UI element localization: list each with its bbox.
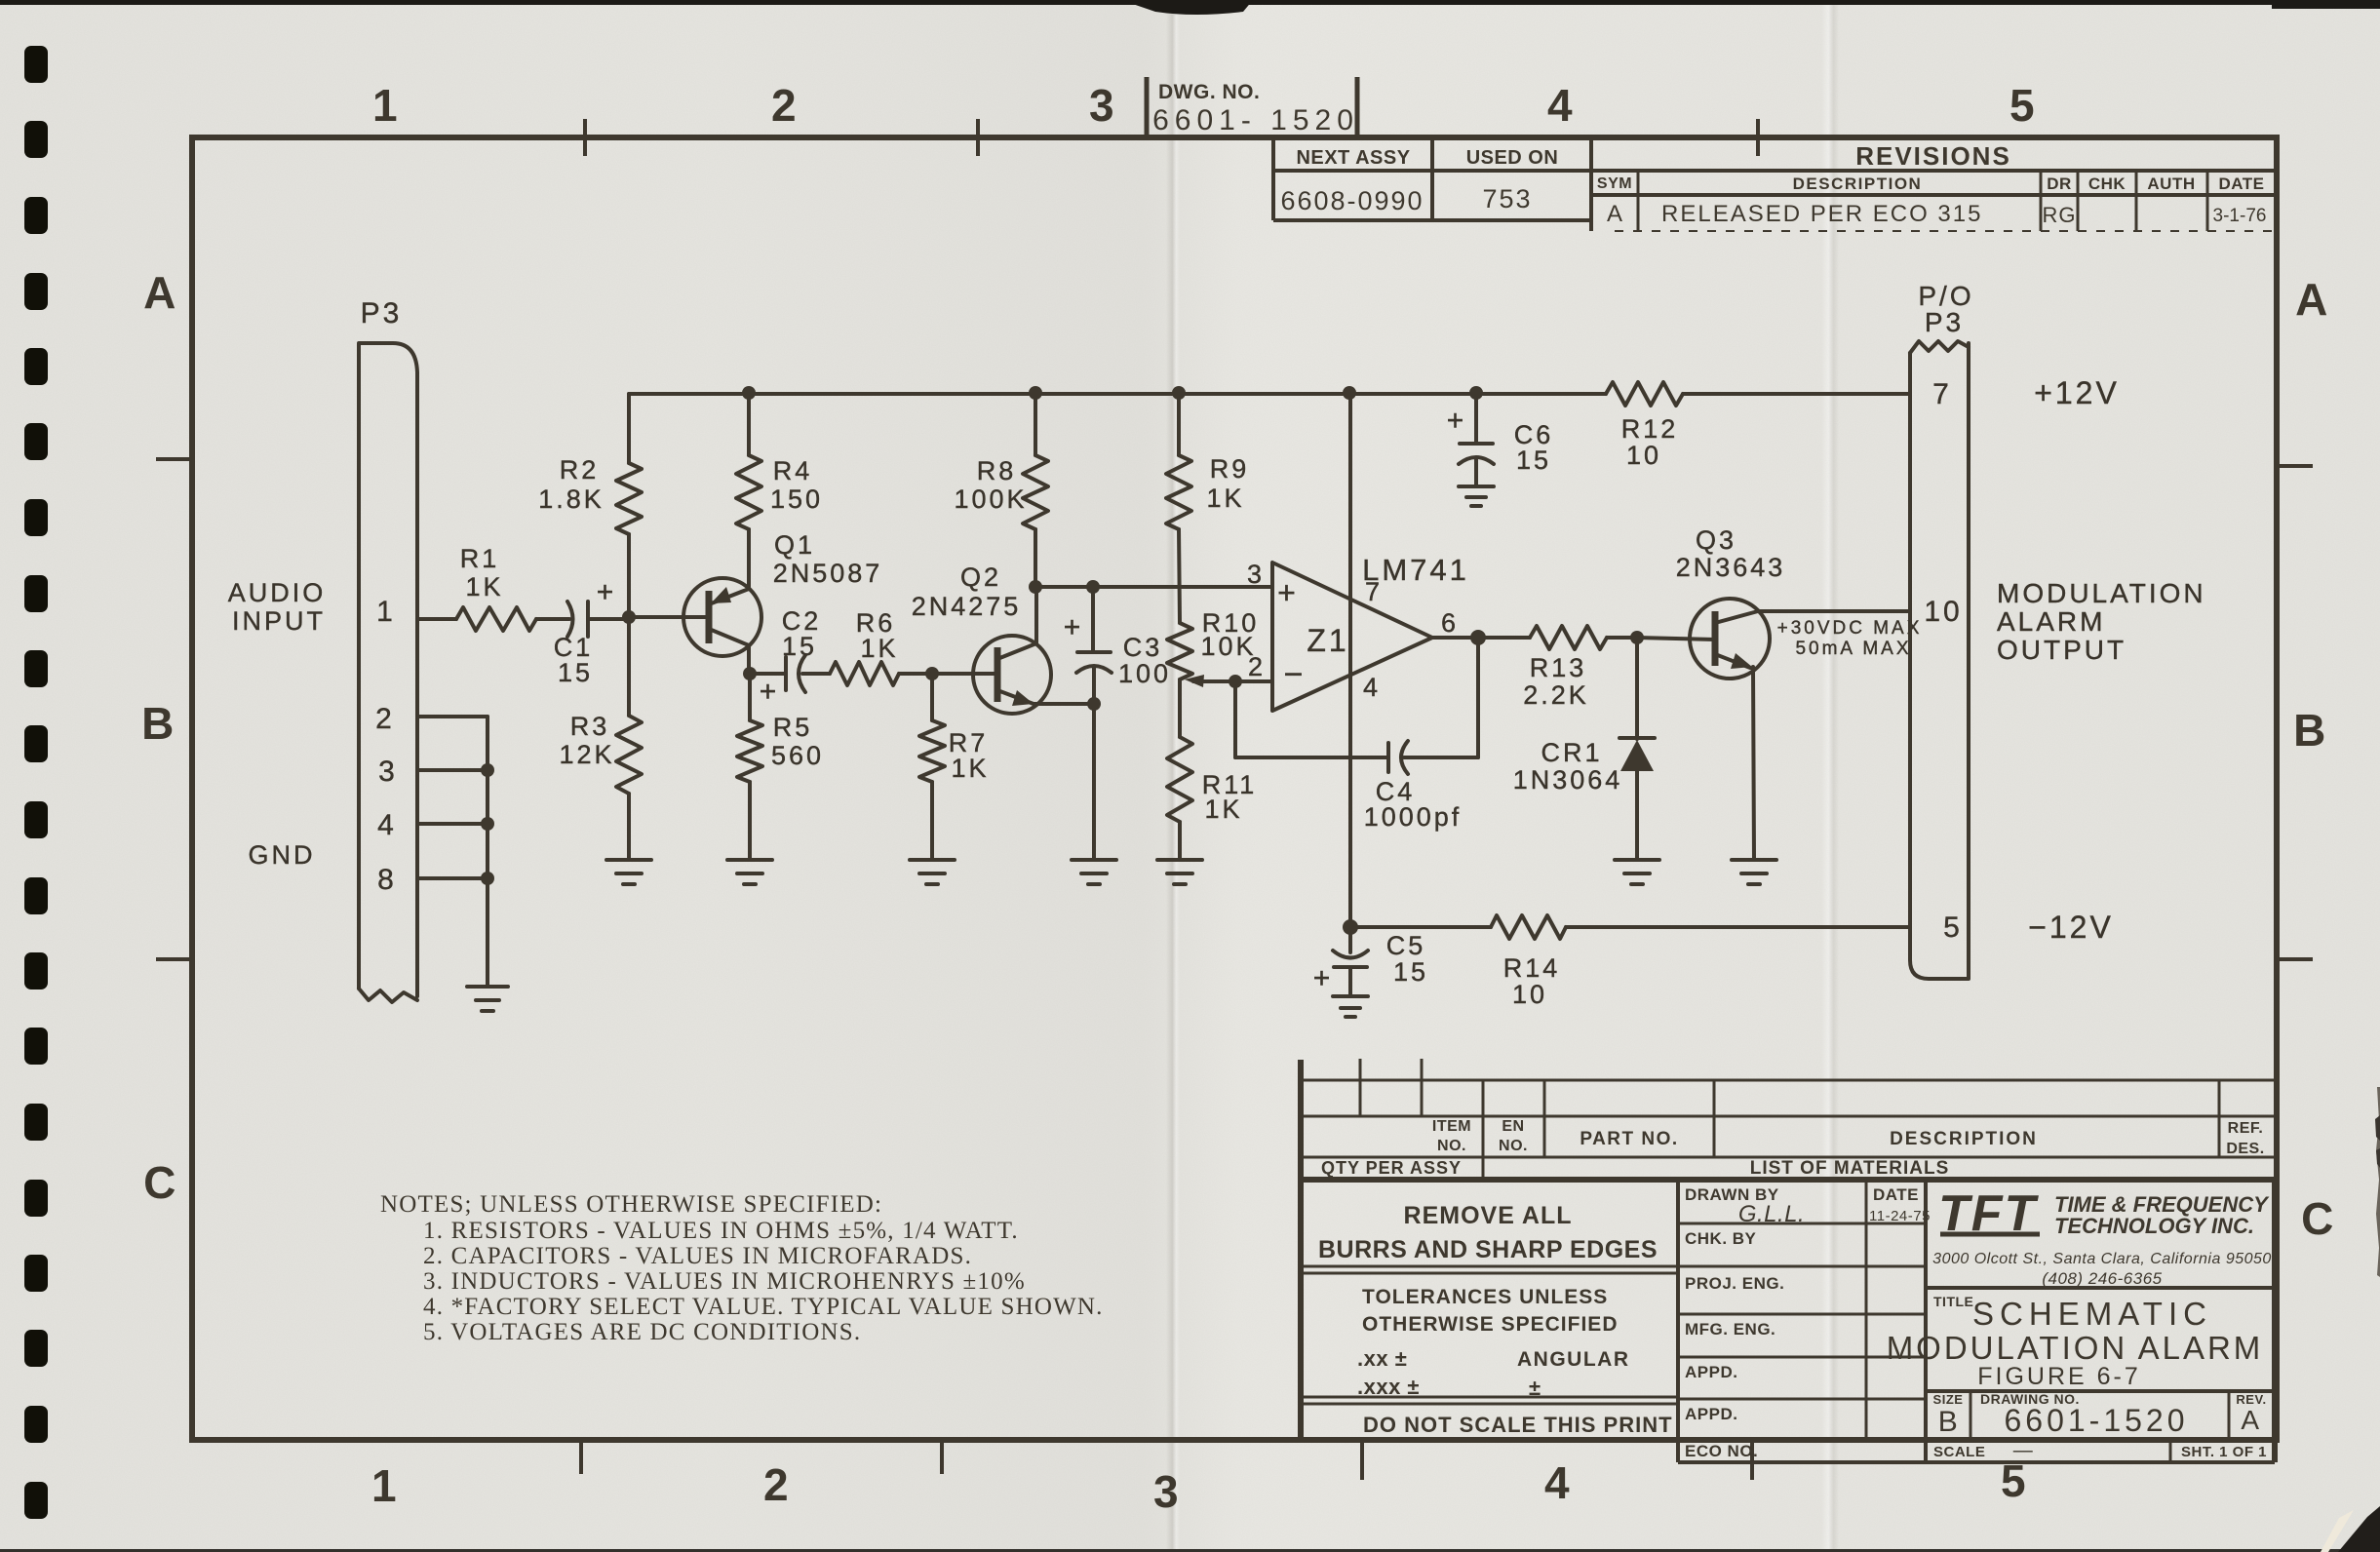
svg-text:5: 5 [1943,912,1963,944]
node R6/R7/Q2 [925,667,939,680]
svg-text:R1: R1 [460,544,500,573]
wire opamp out [1432,636,1530,640]
capacitor C6 [1474,394,1478,444]
resistor R4 [736,455,761,529]
zone ticks right [2277,464,2313,468]
wire Q1 collector to node [747,645,751,674]
svg-text:3: 3 [1247,560,1265,589]
svg-text:15: 15 [558,658,593,687]
wire R9 to R10 [1179,529,1180,623]
svg-text:LIST OF MATERIALS: LIST OF MATERIALS [1750,1158,1950,1179]
svg-text:3: 3 [1153,1466,1179,1517]
svg-text:10: 10 [1626,441,1661,470]
svg-text:15: 15 [782,632,817,661]
torn corner bottom right [2338,1506,2380,1552]
node pin8 junction [481,872,494,885]
wire R10 to R11 [1178,679,1182,737]
node C3/Q2 emitter [1087,697,1101,711]
node rail pin7 [1343,386,1356,400]
svg-text:4: 4 [1363,673,1381,702]
wire R8 to node [1034,529,1037,587]
ground CR1 [1615,860,1659,884]
svg-text:MODULATION: MODULATION [1997,578,2206,608]
svg-text:ALARM: ALARM [1997,606,2105,637]
wire Q3 emitter to ground [1753,667,1754,860]
wire R7 to ground [930,782,934,860]
svg-text:11-24-75: 11-24-75 [1869,1208,1931,1224]
svg-text:CHK. BY: CHK. BY [1685,1229,1757,1248]
svg-text:R12: R12 [1621,414,1679,444]
svg-text:PROJ. ENG.: PROJ. ENG. [1685,1274,1784,1293]
op-amp Z1 LM741 [1272,563,1432,711]
wire R13 to node [1607,636,1637,640]
svg-text:560: 560 [771,741,824,770]
svg-text:8: 8 [377,864,397,896]
svg-text:2N5087: 2N5087 [773,559,883,588]
svg-text:15: 15 [1516,446,1551,475]
svg-text:A: A [2241,1405,2259,1435]
svg-text:RELEASED PER ECO 315: RELEASED PER ECO 315 [1661,201,1982,227]
node R8/Q2 collector [1029,580,1042,594]
left column cells [1301,1265,1678,1268]
node pin4 junction [481,817,494,831]
node Q1/C2/R5 [743,667,757,680]
wire rail to R2 [627,394,631,463]
wire C2 to R6 [802,672,830,676]
svg-text:+: + [1313,962,1334,994]
svg-text:P3: P3 [1925,307,1964,337]
svg-text:2.2K: 2.2K [1523,680,1589,710]
resistor R11 [1167,737,1192,822]
svg-text:4: 4 [377,809,397,841]
svg-text:−: − [1284,656,1307,693]
svg-text:R2: R2 [560,455,600,485]
svg-text:1: 1 [376,596,396,628]
zone ticks top [583,119,587,156]
svg-text:1K: 1K [465,572,503,601]
svg-text:R13: R13 [1530,653,1587,682]
node output [1470,630,1486,645]
svg-text:MFG. ENG.: MFG. ENG. [1685,1320,1775,1339]
svg-text:1: 1 [371,1460,397,1511]
svg-text:6: 6 [1441,608,1459,638]
svg-text:753: 753 [1482,184,1532,213]
svg-text:100: 100 [1118,659,1171,688]
resistor R8 [1023,455,1048,529]
svg-text:6601-1520: 6601-1520 [2004,1403,2188,1438]
wire rail to R4 [747,394,751,455]
svg-text:QTY PER ASSY: QTY PER ASSY [1321,1158,1462,1178]
svg-text:B: B [2293,705,2326,756]
svg-text:R8: R8 [977,456,1017,485]
wire -12V rail [1350,925,1491,929]
svg-text:ITEM: ITEM [1432,1118,1471,1135]
ground Q3 [1732,860,1776,884]
resistor R6 [830,662,899,685]
transistor Q2 [973,636,1051,714]
connector P/O P3 (output) [1910,343,1969,979]
svg-text:OTHERWISE SPECIFIED: OTHERWISE SPECIFIED [1362,1313,1618,1336]
svg-text:+30VDC MAX: +30VDC MAX [1777,618,1923,639]
binder holes [24,46,48,83]
svg-text:B: B [1938,1406,1959,1438]
svg-text:2: 2 [375,703,395,735]
svg-text:+: + [1064,611,1084,643]
wire Q2 collector [1034,587,1038,643]
svg-text:TOLERANCES UNLESS: TOLERANCES UNLESS [1362,1286,1608,1308]
svg-text:EN: EN [1502,1118,1524,1135]
svg-text:R14: R14 [1503,953,1561,983]
list of materials table [1298,1060,1304,1439]
svg-text:FIGURE 6-7: FIGURE 6-7 [1977,1363,2141,1390]
svg-text:REF.: REF. [2228,1120,2264,1137]
scanner black bottom edge [0,1549,2380,1552]
scanner black top edge [0,0,2380,5]
svg-text:3000 Olcott St., Santa Clara,: 3000 Olcott St., Santa Clara, California… [1932,1251,2272,1267]
drawing frame border [192,137,2277,1440]
svg-text:5: 5 [2009,80,2035,131]
resistor R14 [1491,915,1566,939]
svg-text:DATE: DATE [2218,175,2264,193]
wire node to R3 [627,617,631,716]
svg-text:NEXT ASSY: NEXT ASSY [1296,147,1410,169]
node pin2/wiper/feedback [1229,675,1242,688]
size/drawing no row [1926,1389,2275,1393]
resistor R5 [737,720,762,782]
svg-text:ECO NO.: ECO NO. [1685,1442,1758,1460]
resistor R3 [616,716,642,794]
svg-text:SHT. 1 OF 1: SHT. 1 OF 1 [2181,1444,2267,1460]
capacitor C4 [1386,743,1390,772]
wire pin7/pin4 vertical [1348,394,1352,927]
node pin3 junction [481,763,494,777]
wire rail to R9 [1177,394,1181,455]
resistor R12 [1606,382,1683,406]
resistor R13 [1530,626,1607,649]
svg-text:1K: 1K [1206,484,1244,513]
node rail C6 [1469,386,1483,400]
svg-text:A: A [2295,274,2328,325]
svg-text:GND: GND [249,840,316,870]
svg-text:4: 4 [1547,80,1573,131]
wire C3 to ground [1092,668,1096,704]
wire node to Q3 base [1637,638,1715,640]
svg-text:R5: R5 [773,713,813,742]
svg-text:±: ± [1529,1376,1541,1400]
capacitor C1 [567,601,573,637]
wire pin3 [417,768,488,772]
wire C1 to node [588,617,629,621]
NEXT ASSY / USED ON table [1271,140,1275,220]
svg-text:1. RESISTORS - VALUES IN OHMS: 1. RESISTORS - VALUES IN OHMS ±5%, 1/4 W… [423,1218,1019,1244]
wire R5 to ground [748,782,752,860]
svg-text:APPD.: APPD. [1685,1363,1737,1381]
svg-text:+: + [597,576,617,608]
title block grid [1676,1180,1680,1462]
ground C3 [1072,860,1116,884]
wire R6 to node [899,672,932,676]
svg-text:6608-0990: 6608-0990 [1280,186,1424,215]
wire rail to R8 [1034,394,1037,455]
svg-text:SCHEMATIC: SCHEMATIC [1972,1296,2212,1332]
svg-text:5. VOLTAGES ARE DC CONDITIONS: 5. VOLTAGES ARE DC CONDITIONS. [423,1319,861,1345]
wire R4 to Q1 emitter [747,529,751,589]
svg-text:R4: R4 [773,456,813,485]
diode CR1 [1635,638,1639,739]
wire pin1 to R1 [417,617,456,621]
svg-text:3-1-76: 3-1-76 [2213,206,2267,226]
connector P3 (input) [359,343,417,996]
capacitor C2 [750,672,786,676]
svg-text:1N3064: 1N3064 [1513,765,1623,795]
svg-text:OUTPUT: OUTPUT [1997,635,2126,665]
svg-text:A: A [143,267,176,318]
svg-text:NO.: NO. [1499,1138,1528,1154]
svg-text:Z1: Z1 [1307,623,1348,658]
svg-text:NOTES; UNLESS OTHERWISE SPECI: NOTES; UNLESS OTHERWISE SPECIFIED: [380,1191,882,1218]
svg-text:C5: C5 [1386,931,1426,960]
wire node to Q2 base [932,672,997,676]
wire pin8 [417,876,488,880]
svg-text:4. *FACTORY SELECT VALUE. TY: 4. *FACTORY SELECT VALUE. TYPICAL VALUE … [423,1294,1104,1320]
wire pin2 node to opamp [1235,679,1272,683]
capacitor C3 [1091,587,1095,652]
DWG NO box [1145,77,1150,140]
svg-text:150: 150 [770,485,823,514]
right column: company [1926,1286,2275,1290]
svg-text:AUDIO: AUDIO [228,578,327,607]
svg-text:AUTH: AUTH [2147,175,2195,193]
feedback wire [1476,638,1480,757]
wire Q2 emitter to node [1034,702,1094,706]
svg-text:B: B [141,698,175,749]
svg-text:DES.: DES. [2226,1141,2264,1157]
node rail R9 [1172,386,1186,400]
potentiometer R10 [1167,623,1192,679]
rough right paper edge [2376,1087,2380,1277]
transistor Q1 [683,578,761,656]
svg-text:Q2: Q2 [960,563,1001,592]
resistor R1 [456,607,536,631]
scale row [1926,1438,2275,1442]
svg-text:NO.: NO. [1437,1138,1466,1154]
svg-text:—: — [2013,1440,2034,1461]
zone ticks left [156,457,192,461]
svg-text:(408) 246-6365: (408) 246-6365 [2042,1269,2162,1288]
wire node to pin3 line [1035,585,1272,589]
svg-text:DO NOT SCALE THIS PRINT: DO NOT SCALE THIS PRINT [1363,1413,1673,1437]
svg-text:C: C [143,1157,176,1208]
svg-text:3: 3 [1089,80,1114,131]
svg-text:SCALE: SCALE [1933,1444,1985,1460]
svg-text:MODULATION ALARM: MODULATION ALARM [1887,1330,2264,1366]
wire R3 to ground [627,794,631,860]
svg-text:A: A [1607,201,1624,227]
svg-text:1.8K: 1.8K [538,485,605,514]
svg-text:2. CAPACITORS - VALUES IN MIC: 2. CAPACITORS - VALUES IN MICROFARADS. [423,1243,972,1269]
svg-text:C3: C3 [1123,633,1163,662]
node C3 top [1086,580,1100,594]
svg-text:P3: P3 [361,297,403,330]
wire R1 to C1 [536,617,569,621]
svg-text:TITLE: TITLE [1933,1294,1973,1309]
ground R11 [1157,860,1202,884]
node rail R4 [742,386,756,400]
svg-text:1K: 1K [860,634,898,663]
wire node to R5 top [748,674,752,720]
svg-text:DWG. NO.: DWG. NO. [1158,81,1260,103]
svg-text:.xx ±: .xx ± [1357,1346,1407,1371]
ground R3 [606,860,651,884]
svg-text:1K: 1K [1204,795,1242,824]
svg-text:CR1: CR1 [1541,738,1602,767]
svg-text:ANGULAR: ANGULAR [1517,1348,1630,1371]
svg-text:R9: R9 [1210,454,1250,484]
svg-text:2: 2 [1248,652,1266,681]
ground C5 [1333,996,1368,1017]
svg-text:2N4275: 2N4275 [912,592,1022,621]
svg-text:1000pf: 1000pf [1364,802,1463,832]
svg-text:APPD.: APPD. [1685,1405,1737,1423]
svg-text:1K: 1K [951,754,989,783]
svg-text:CHK: CHK [2088,175,2126,193]
svg-text:+12V: +12V [2034,375,2120,410]
svg-text:G.L.L.: G.L.L. [1738,1201,1805,1227]
svg-text:REVISIONS: REVISIONS [1855,141,2011,171]
svg-text:SYM: SYM [1597,175,1632,192]
ground bus [467,987,508,1011]
wire pin4 [417,822,488,826]
svg-text:10: 10 [1512,980,1547,1009]
R10 wiper [1193,679,1235,683]
svg-text:C: C [2301,1193,2334,1244]
svg-text:DESCRIPTION: DESCRIPTION [1793,175,1923,193]
svg-text:PART NO.: PART NO. [1580,1129,1678,1149]
transistor Q3 [1690,599,1770,679]
ground R5 [727,860,772,884]
capacitor C5 [1348,927,1352,952]
svg-text:USED ON: USED ON [1466,147,1559,169]
svg-text:SIZE: SIZE [1933,1392,1964,1407]
svg-text:6601- 1520: 6601- 1520 [1152,104,1359,136]
svg-text:100K: 100K [954,485,1027,514]
svg-text:DR: DR [2047,175,2072,193]
svg-text:R3: R3 [570,712,610,741]
ground C6 [1459,486,1494,506]
svg-text:7: 7 [1365,577,1383,606]
svg-text:2: 2 [771,80,797,131]
svg-text:7: 7 [1932,378,1952,410]
wire pin2 gnd bus [417,715,488,718]
wire +12V rail [629,392,1606,396]
svg-text:DATE: DATE [1873,1185,1919,1204]
svg-text:BURRS AND SHARP EDGES: BURRS AND SHARP EDGES [1318,1236,1658,1263]
svg-text:2N3643: 2N3643 [1676,553,1786,582]
svg-text:Q3: Q3 [1696,525,1736,555]
svg-text:4: 4 [1544,1457,1570,1508]
wire R11 to ground [1178,822,1182,860]
svg-text:50mA MAX: 50mA MAX [1795,639,1911,659]
zone ticks bottom [579,1440,583,1474]
svg-text:TECHNOLOGY INC.: TECHNOLOGY INC. [2054,1214,2254,1238]
resistor R9 [1166,455,1191,529]
middle column rows [1678,1222,1926,1225]
wire node to R7 [930,674,934,720]
svg-text:REMOVE ALL: REMOVE ALL [1404,1202,1573,1229]
TFT logo [1938,1185,2040,1242]
node rail R8 [1029,386,1042,400]
svg-text:Q1: Q1 [774,530,815,560]
resistor R7 [919,720,945,782]
svg-text:10: 10 [1924,596,1962,628]
svg-text:1: 1 [372,80,398,131]
svg-text:+: + [760,676,780,708]
svg-text:RG: RG [2043,203,2077,227]
wire Q3 collector to pin10 [1758,609,1910,613]
wire R2 to node [627,534,631,617]
svg-text:3: 3 [378,756,398,788]
svg-text:INPUT: INPUT [232,606,326,636]
svg-text:12K: 12K [559,740,614,769]
svg-text:+: + [1277,575,1299,610]
svg-text:DESCRIPTION: DESCRIPTION [1890,1129,2038,1149]
node R13/CR1/Q3 [1630,631,1644,644]
svg-text:+: + [1447,405,1467,437]
REVISIONS table [1591,169,2276,173]
svg-text:15: 15 [1393,957,1428,987]
node C5 [1343,919,1358,935]
svg-text:−12V: −12V [2028,910,2114,945]
wire node to Q1 base [629,615,709,619]
svg-text:3. INDUCTORS - VALUES IN MICR: 3. INDUCTORS - VALUES IN MICROHENRYS ±10… [423,1268,1026,1295]
svg-text:2: 2 [763,1459,789,1510]
node C1/R2/Q1 [622,610,636,624]
resistor R2 [616,463,642,534]
ground R7 [910,860,955,884]
svg-text:.xxx ±: .xxx ± [1357,1375,1420,1399]
